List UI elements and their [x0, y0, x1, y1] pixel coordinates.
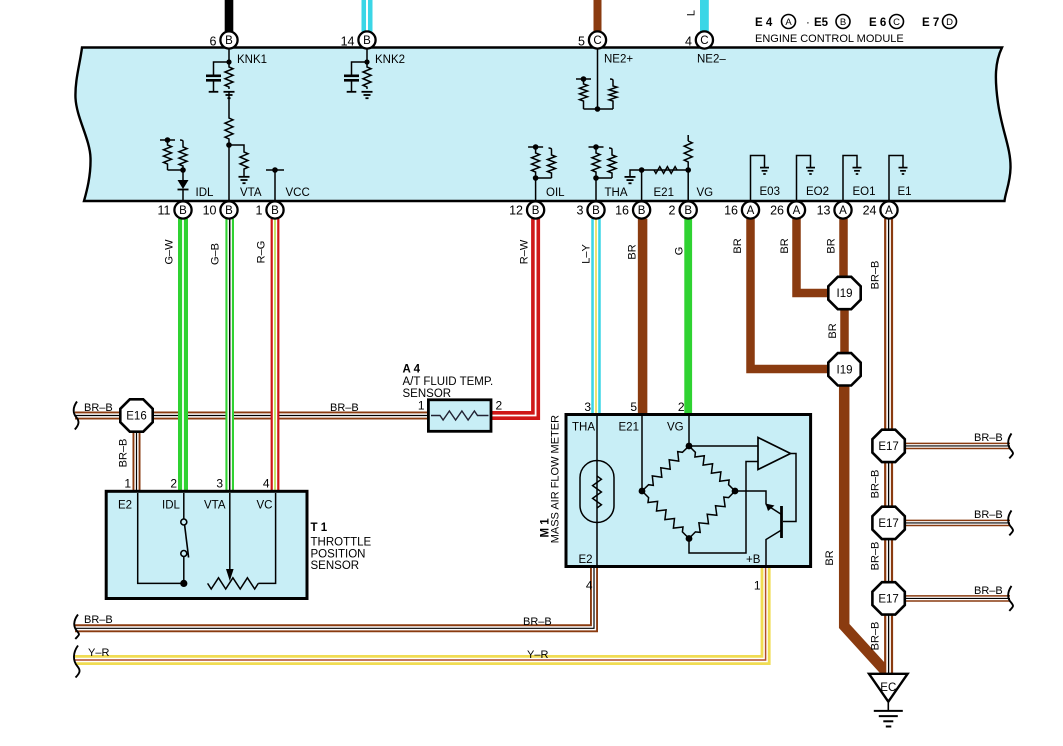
- svg-text:THROTTLE: THROTTLE: [311, 537, 372, 549]
- svg-text:16: 16: [615, 204, 629, 218]
- svg-text:EO1: EO1: [853, 186, 876, 198]
- svg-text:G: G: [674, 247, 686, 256]
- op-amp output to transistor base: [783, 454, 796, 522]
- svg-text:A: A: [839, 205, 847, 217]
- capacitor and resistor at KNK1 inside ECM: [228, 49, 230, 62]
- svg-text:BR–B: BR–B: [84, 614, 113, 626]
- svg-text:16: 16: [724, 204, 738, 218]
- wire continuation brace E17 row 2: [1008, 510, 1013, 535]
- svg-text:POSITION: POSITION: [311, 549, 366, 561]
- bridge resistor top-left: [642, 446, 689, 491]
- wire BR pin 26A to I19: [797, 219, 830, 293]
- svg-text:D: D: [946, 17, 953, 28]
- pin 4 C: [696, 31, 713, 48]
- wire BR-B pin 24A through E17 connectors to EC: [884, 219, 893, 431]
- TPS IDL switch: [183, 493, 185, 519]
- svg-text:3: 3: [577, 204, 584, 218]
- svg-text:EC: EC: [880, 682, 896, 694]
- svg-text:E 4: E 4: [755, 17, 773, 29]
- svg-text:E2: E2: [579, 554, 593, 566]
- ECM module body (light blue band): [75, 48, 1010, 202]
- svg-text:BR: BR: [779, 238, 791, 253]
- svg-text:24: 24: [863, 204, 877, 218]
- bridge nodes: [639, 488, 646, 495]
- pin 11 B: [174, 201, 191, 218]
- wire top node to op-amp: [689, 445, 758, 447]
- svg-text:NE2–: NE2–: [697, 54, 726, 66]
- pin 2 B: [680, 201, 697, 218]
- svg-text:E2: E2: [118, 500, 132, 512]
- svg-text:BR: BR: [826, 238, 838, 253]
- svg-text:L–Y: L–Y: [581, 244, 593, 264]
- svg-text:Y–R: Y–R: [527, 649, 548, 661]
- connector E16: [120, 399, 152, 431]
- svg-text:L: L: [686, 10, 698, 16]
- svg-text:11: 11: [158, 204, 171, 218]
- E03 ground inside ECM: [751, 156, 765, 202]
- svg-text:BR–B: BR–B: [870, 622, 882, 651]
- svg-text:E03: E03: [760, 186, 780, 198]
- svg-text:E17: E17: [878, 594, 898, 606]
- pin 10 B: [220, 201, 237, 218]
- svg-text:E16: E16: [126, 411, 146, 423]
- capacitor and resistor at KNK2 inside ECM: [366, 49, 368, 62]
- bridge resistor bottom-right: [689, 491, 735, 539]
- MAF VG line: [688, 416, 690, 446]
- pin 1 B: [266, 201, 283, 218]
- wire continuation brace BR-B bottom: [74, 615, 79, 640]
- svg-text:NE2+: NE2+: [604, 54, 633, 66]
- svg-text:E17: E17: [878, 518, 898, 530]
- wire BR pin 16B to MAF pin 5: [638, 219, 648, 415]
- svg-text:1: 1: [256, 204, 263, 218]
- svg-text:2: 2: [170, 477, 177, 491]
- wire BR-B through E16 to A4 pin 1: [75, 412, 429, 420]
- bridge resistor bottom-left: [642, 491, 689, 539]
- wire continuation brace left of E16: [74, 402, 79, 430]
- svg-text:G–W: G–W: [164, 239, 176, 265]
- wire BR-B stub from E17 row 1: [904, 443, 1010, 450]
- connector E17: [872, 430, 904, 462]
- MAF E21 line: [641, 416, 643, 491]
- M1 mass air flow meter box: [566, 415, 811, 567]
- svg-text:BR–B: BR–B: [870, 261, 882, 290]
- svg-text:BR–B: BR–B: [330, 402, 359, 414]
- pin 16 A: [742, 201, 759, 218]
- svg-text:R–G: R–G: [256, 241, 268, 264]
- svg-text:1: 1: [754, 579, 761, 593]
- connector E17: [872, 507, 904, 539]
- svg-text:B: B: [225, 35, 233, 47]
- svg-text:BR: BR: [627, 244, 639, 259]
- wire L-Y pin 3 to MAF pin 3: [591, 219, 601, 415]
- svg-text:BR–B: BR–B: [974, 585, 1003, 597]
- TPS VTA wiper arrow: [229, 493, 231, 569]
- OIL internal resistors: [533, 144, 539, 150]
- ground EC: [869, 674, 908, 702]
- svg-text:3: 3: [584, 400, 591, 414]
- EO2 ground inside ECM: [797, 156, 811, 202]
- svg-text:A: A: [747, 205, 755, 217]
- svg-text:OIL: OIL: [546, 187, 565, 199]
- pin 5 C: [589, 31, 606, 48]
- svg-text:A: A: [785, 17, 792, 28]
- svg-text:4: 4: [263, 477, 270, 491]
- svg-text:VC: VC: [257, 500, 273, 512]
- pin 13 A: [834, 201, 851, 218]
- wire continuation brace Y-R bottom: [74, 646, 80, 678]
- svg-text:1: 1: [124, 477, 131, 491]
- svg-text:2: 2: [669, 204, 676, 218]
- VTA internal resistors: [228, 91, 230, 113]
- wire BR pin 16A to I19: [751, 219, 830, 369]
- pin 16 B: [633, 201, 650, 218]
- wire R-G pin 1 to TPS pin 4: [271, 219, 280, 492]
- EO1 ground inside ECM: [843, 156, 857, 202]
- svg-text:A: A: [885, 205, 893, 217]
- E1 ground inside ECM: [889, 156, 903, 202]
- connector I19 upper: [828, 277, 860, 309]
- svg-text:BR–B: BR–B: [84, 402, 113, 414]
- wire L to pin 4: [700, 0, 709, 32]
- svg-text:5: 5: [630, 400, 637, 414]
- svg-text:BR–B: BR–B: [870, 470, 882, 499]
- svg-text:VG: VG: [667, 422, 684, 434]
- wire BR pin 13A through I19 connectors to EC: [839, 219, 848, 278]
- resistor inside A4: [431, 411, 489, 420]
- wire G-W pin 11 to TPS pin 2: [178, 219, 188, 492]
- wire continuation brace E17 row 3: [1008, 586, 1013, 611]
- svg-text:A 4: A 4: [403, 364, 421, 376]
- svg-text:B: B: [592, 205, 600, 217]
- pin 6 B: [220, 31, 237, 48]
- svg-text:KNK1: KNK1: [237, 54, 267, 66]
- svg-text:E17: E17: [878, 441, 898, 453]
- op-amp U1: [758, 438, 791, 470]
- THA internal resistors: [593, 144, 599, 150]
- svg-text:·: ·: [806, 17, 810, 29]
- svg-text:B: B: [684, 205, 692, 217]
- NE2+ internal resistors: [597, 49, 599, 109]
- svg-text:B: B: [225, 205, 233, 217]
- svg-text:E5: E5: [814, 17, 829, 29]
- svg-text:VCC: VCC: [286, 187, 310, 199]
- bridge resistor top-right: [689, 446, 735, 491]
- svg-text:THA: THA: [572, 422, 595, 434]
- wire G pin 2 to MAF pin 2: [684, 219, 692, 415]
- svg-text:14: 14: [341, 35, 355, 49]
- E21 and VG internal circuit: [687, 135, 689, 141]
- svg-text:B: B: [840, 17, 846, 28]
- wire BR-B E16 down to TPS pin 1: [133, 430, 141, 492]
- wire BR-B bottom bus to MAF pin 4: [75, 567, 594, 628]
- svg-text:B: B: [363, 35, 371, 47]
- svg-text:+B: +B: [746, 554, 761, 566]
- svg-text:C: C: [700, 35, 708, 47]
- svg-text:VG: VG: [697, 187, 714, 199]
- svg-text:BR–B: BR–B: [870, 542, 882, 571]
- MAF THA line with hot wire element: [596, 416, 598, 565]
- wire BR-B stub from E17 row 2: [904, 520, 1010, 527]
- wire Y-R bottom bus to MAF pin 1: [75, 567, 766, 660]
- TPS E2 line: [138, 493, 184, 583]
- svg-text:BR–B: BR–B: [118, 439, 130, 468]
- wire R-W pin 12 to A4 pin 2: [490, 219, 536, 416]
- svg-text:BR–B: BR–B: [523, 616, 552, 628]
- svg-text:13: 13: [817, 204, 831, 218]
- pin 26 A: [788, 201, 805, 218]
- svg-text:12: 12: [509, 204, 523, 218]
- svg-text:IDL: IDL: [196, 187, 215, 199]
- transistor Q1: [780, 506, 783, 538]
- wire BR to pin 5: [594, 0, 602, 32]
- svg-text:BR: BR: [824, 550, 836, 565]
- connector E17: [872, 582, 904, 614]
- svg-text:THA: THA: [605, 187, 628, 199]
- pin 12 B: [527, 201, 544, 218]
- svg-text:E21: E21: [654, 187, 674, 199]
- svg-text:T 1: T 1: [311, 522, 328, 534]
- pin 3 B: [587, 201, 604, 218]
- svg-text:6: 6: [210, 35, 217, 49]
- svg-text:BR–B: BR–B: [974, 432, 1003, 444]
- svg-text:E1: E1: [898, 186, 912, 198]
- svg-text:E 6: E 6: [869, 17, 886, 29]
- pin 24 A: [880, 201, 897, 218]
- connector I19 lower: [828, 353, 860, 385]
- svg-text:A: A: [793, 205, 801, 217]
- IDL internal resistors and diode: [165, 137, 171, 143]
- svg-text:ENGINE CONTROL MODULE: ENGINE CONTROL MODULE: [755, 33, 904, 45]
- svg-text:KNK2: KNK2: [375, 54, 405, 66]
- svg-text:BR–B: BR–B: [974, 509, 1003, 521]
- TPS potentiometer: [208, 578, 259, 589]
- svg-text:EO2: EO2: [806, 186, 829, 198]
- svg-text:MASS AIR FLOW METER: MASS AIR FLOW METER: [550, 415, 562, 543]
- svg-text:I19: I19: [837, 288, 853, 300]
- wire BR-B stub from E17 row 3: [904, 595, 1010, 602]
- pin 14 B: [358, 31, 375, 48]
- A4 A/T fluid temp sensor box: [428, 400, 491, 432]
- svg-text:1: 1: [418, 399, 425, 413]
- svg-text:C: C: [893, 17, 900, 28]
- svg-text:B: B: [532, 205, 540, 217]
- svg-text:I19: I19: [837, 365, 853, 377]
- wire L to pin 14: [362, 0, 373, 32]
- svg-text:3: 3: [216, 477, 223, 491]
- svg-text:R–W: R–W: [519, 239, 531, 264]
- svg-text:10: 10: [203, 204, 217, 218]
- svg-text:4: 4: [586, 579, 593, 593]
- svg-text:Y–R: Y–R: [88, 647, 109, 659]
- svg-text:E21: E21: [619, 422, 639, 434]
- svg-text:B: B: [638, 205, 646, 217]
- svg-text:2: 2: [678, 400, 685, 414]
- wire KNK1 black to pin 6: [225, 0, 234, 32]
- wire continuation brace E17 row 1: [1008, 433, 1013, 458]
- svg-text:B: B: [271, 205, 279, 217]
- svg-text:A/T FLUID TEMP.: A/T FLUID TEMP.: [403, 376, 494, 388]
- svg-text:VTA: VTA: [204, 500, 226, 512]
- T1 throttle position sensor box: [106, 491, 307, 598]
- svg-text:IDL: IDL: [162, 500, 181, 512]
- svg-text:SENSOR: SENSOR: [403, 388, 452, 400]
- svg-text:B: B: [179, 205, 187, 217]
- VCC internal stub: [274, 170, 276, 201]
- svg-text:E 7: E 7: [922, 17, 939, 29]
- svg-text:C: C: [593, 35, 601, 47]
- svg-text:2: 2: [496, 399, 503, 413]
- svg-text:BR: BR: [732, 238, 744, 253]
- svg-text:BR: BR: [827, 323, 839, 338]
- wire bottom node to op-amp input 2: [689, 462, 758, 554]
- svg-text:4: 4: [685, 35, 692, 49]
- svg-text:5: 5: [578, 35, 585, 49]
- svg-text:VTA: VTA: [240, 187, 262, 199]
- svg-text:26: 26: [770, 204, 784, 218]
- svg-text:SENSOR: SENSOR: [311, 560, 360, 572]
- svg-text:G–B: G–B: [210, 243, 222, 265]
- wire G-B pin 10 to TPS pin 3: [225, 219, 234, 492]
